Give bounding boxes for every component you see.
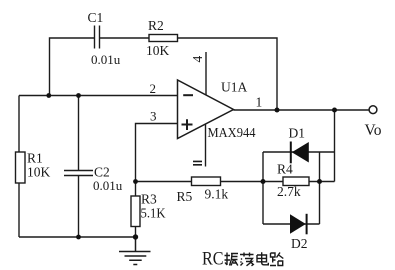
resistor R4 body	[283, 177, 309, 186]
capacitor C2 plates	[64, 171, 93, 176]
ground symbol	[119, 237, 151, 265]
junction dot C1 branch	[46, 93, 51, 98]
wire output rail (pin 1)	[234, 109, 370, 111]
output terminal circle	[369, 106, 377, 114]
label pin 11 (rotated dashes)	[193, 161, 202, 164]
resistor R2 body	[149, 35, 178, 42]
junction dot output/R2	[275, 108, 280, 113]
junction dot left bracket	[261, 179, 266, 184]
resistor R1 body	[16, 152, 26, 183]
wire diode network left bracket	[262, 152, 264, 224]
junction dot C2 branch	[76, 93, 81, 98]
wire inverting input net (pin 2)	[19, 95, 177, 97]
wire D1 top rail	[263, 151, 335, 153]
char 路	[270, 253, 283, 266]
junction dot C2 bottom	[76, 235, 81, 240]
junction dot output/feedback	[332, 108, 337, 113]
svg-text:MAX944: MAX944	[208, 125, 256, 140]
resistor R3 body	[131, 196, 140, 227]
wire C2 branch lower	[78, 176, 80, 237]
op-amp plus sign	[182, 119, 193, 130]
wire R3 branch	[135, 182, 137, 238]
char 振	[225, 253, 239, 266]
junction dot ground node	[133, 234, 138, 239]
caption chinese 振荡电路 (hand drawn strokes)	[225, 252, 284, 265]
wire bottom rail	[19, 236, 136, 238]
svg-text:0.01u: 0.01u	[93, 178, 123, 193]
svg-text:R5: R5	[177, 189, 193, 204]
svg-text:3: 3	[150, 109, 157, 124]
wire C1 to R2	[100, 37, 150, 39]
svg-text:R4: R4	[277, 162, 293, 177]
junction dot right bracket	[317, 179, 322, 184]
svg-text:RC: RC	[202, 249, 224, 270]
svg-text:10K: 10K	[146, 43, 170, 58]
op-amp minus sign	[183, 94, 193, 96]
wire diode network right bracket	[319, 152, 321, 224]
resistor R5 body	[192, 177, 221, 186]
svg-text:10K: 10K	[27, 165, 51, 180]
svg-text:U1A: U1A	[221, 80, 247, 95]
svg-text:D2: D2	[291, 236, 308, 251]
junction dot pin3/R3/R5	[133, 179, 138, 184]
svg-text:5.1K: 5.1K	[141, 206, 166, 221]
svg-text:R3: R3	[141, 192, 157, 207]
svg-text:2.7k: 2.7k	[277, 184, 301, 199]
svg-text:1: 1	[256, 95, 263, 110]
wire D2 bottom rail	[263, 223, 320, 225]
wire C2 branch upper	[78, 96, 80, 171]
wire left branch with R1	[18, 96, 20, 238]
svg-text:0.01u: 0.01u	[91, 52, 121, 67]
wire top-left from C1 down to inverting-input net	[50, 38, 95, 96]
capacitor C1 plates	[95, 26, 100, 49]
op-amp pin 11 stub	[205, 125, 207, 167]
wire feedback rail y=181.5	[136, 181, 335, 183]
svg-text:4: 4	[190, 56, 205, 63]
wire R2 right to output vertical	[178, 38, 278, 110]
svg-text:9.1k: 9.1k	[205, 187, 229, 202]
svg-text:Vo: Vo	[365, 122, 382, 139]
svg-text:R1: R1	[27, 151, 43, 166]
wire non-inverting input (pin 3)	[136, 124, 178, 182]
svg-text:R2: R2	[148, 18, 164, 33]
svg-text:C1: C1	[88, 10, 104, 25]
diode D2 (pointing right)	[290, 214, 306, 234]
op-amp U1A triangle	[178, 80, 234, 139]
wire output to feedback vertical	[334, 110, 336, 182]
char 荡	[240, 253, 254, 266]
diode D1 (pointing left)	[290, 142, 292, 164]
char 电	[257, 252, 268, 264]
svg-text:2: 2	[150, 81, 157, 96]
op-amp pin 4 stub	[205, 52, 207, 95]
svg-text:D1: D1	[289, 126, 306, 141]
